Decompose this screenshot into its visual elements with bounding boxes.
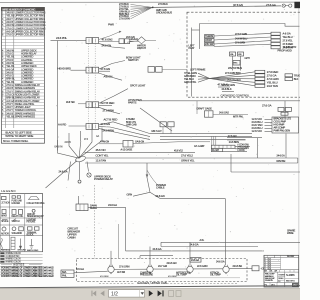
- svg-text:24.6 GA: 24.6 GA: [59, 170, 68, 174]
- svg-text:24.6 W: 24.6 W: [65, 142, 72, 144]
- svg-text:6-74: 6-74: [268, 264, 271, 266]
- svg-text:SOLENOID: SOLENOID: [12, 233, 23, 235]
- strip riser: [213, 136, 215, 145]
- toolbar first-page button (disabled): [91, 291, 96, 297]
- toolbar view button 2 (disabled): [176, 291, 181, 297]
- svg-text:24.6 W BLU: 24.6 W BLU: [235, 37, 247, 40]
- svg-text:OIL TEMP: OIL TEMP: [210, 274, 221, 277]
- wire: [131, 7, 153, 18]
- feed riser: [225, 199, 227, 266]
- revision row: [264, 259, 281, 261]
- enclosure inner stub: [192, 29, 200, 31]
- terminal strip CC2 pin: [255, 70, 265, 73]
- mid bus wire 2: [160, 136, 252, 138]
- inter-connector dotted harness line A: [88, 44, 90, 124]
- wire into junction: [79, 128, 102, 159]
- wire: [265, 124, 273, 126]
- wire list table row line: [1, 23, 44, 25]
- gauge output wire: [229, 268, 252, 270]
- wire list table row line: [1, 73, 44, 75]
- svg-text:27.6 BLK: 27.6 BLK: [158, 2, 168, 6]
- wire: [131, 7, 153, 11]
- aux cluster box a: [278, 107, 284, 111]
- company logo mark: [292, 283, 298, 286]
- wire: [162, 68, 187, 70]
- circuit breaker box: [76, 204, 88, 211]
- inter-connector dotted harness line B: [94, 44, 96, 124]
- panel top rail: [200, 24, 300, 27]
- svg-text:27.6 GRN: 27.6 GRN: [235, 42, 245, 45]
- connector J1: [86, 38, 92, 44]
- wire from water watch: [146, 39, 157, 41]
- svg-text:BLK: BLK: [294, 78, 299, 81]
- svg-text:WD-12867: WD-12867: [287, 256, 294, 258]
- relay coil upper deck: [87, 162, 89, 172]
- wire list table column line 2: [13, 11, 15, 128]
- revision row: [264, 257, 281, 259]
- lower bus 1: [161, 241, 300, 243]
- svg-text:24.6 PNL: 24.6 PNL: [56, 36, 67, 40]
- svg-text:PWR: PWR: [108, 23, 114, 27]
- wire: [235, 145, 250, 147]
- lamp riser: [162, 127, 164, 134]
- terminal strip CC2 pin: [255, 81, 265, 84]
- long wire y172: [231, 171, 300, 173]
- svg-text:24.6 TEL BLU: 24.6 TEL BLU: [227, 79, 241, 82]
- revision row: [264, 263, 281, 265]
- wire to bus: [150, 192, 161, 198]
- svg-text:FUSE LINK: FUSE LINK: [12, 201, 23, 203]
- svg-text:TRUGA: TRUGA: [294, 74, 300, 77]
- wire: [214, 44, 271, 46]
- wire: [198, 77, 210, 80]
- wire list table row line: [1, 45, 44, 47]
- svg-text:ALT 6M: ALT 6M: [117, 271, 125, 274]
- wire: [71, 69, 87, 71]
- legend row line: [0, 217, 43, 219]
- svg-text:A-6 GA: A-6 GA: [283, 32, 291, 36]
- svg-text:EARTH GND: EARTH GND: [27, 249, 39, 252]
- gauge G2: [147, 266, 153, 272]
- connector block CC1 pin: [271, 39, 280, 42]
- legend symbol: terminal block: [28, 227, 33, 230]
- lower bus 3: [126, 250, 265, 252]
- gauge G1: [108, 266, 114, 272]
- wire: [214, 33, 271, 36]
- relay cluster K2 box B: [238, 52, 244, 56]
- svg-text:L E G E N D: L E G E N D: [1, 189, 15, 193]
- wire list table frame: [1, 7, 44, 143]
- wire list table row line: [1, 32, 44, 34]
- terminal strip CC2 pin: [255, 74, 265, 77]
- svg-text:CONT YEL: CONT YEL: [96, 153, 109, 157]
- legend note line: [0, 265, 43, 267]
- svg-text:27.6 GA: 27.6 GA: [266, 3, 276, 7]
- page top border line: [0, 1, 300, 3]
- wire list table row line: [1, 117, 44, 119]
- thermostat block K1c: [205, 43, 215, 46]
- wire list table row line: [1, 92, 44, 94]
- svg-text:PUMP MTR: PUMP MTR: [283, 45, 296, 49]
- bus tie: [160, 242, 162, 246]
- wire: [214, 41, 271, 44]
- wire list table row line: [1, 38, 44, 40]
- connector block CC1 pin: [271, 36, 280, 39]
- wire list table row line: [1, 60, 44, 62]
- connector block CC1 pin: [271, 46, 280, 49]
- vertical feeder bus: [56, 41, 58, 151]
- svg-text:GT- LAMP: GT- LAMP: [194, 145, 205, 148]
- wire list table row line: [1, 35, 44, 37]
- svg-text:N O T E S: N O T E S: [14, 263, 25, 267]
- wire into junction: [69, 133, 79, 158]
- svg-text:GRN 8 YEL: GRN 8 YEL: [181, 159, 195, 163]
- connector J2: [86, 67, 92, 73]
- legend column line 2: [24, 194, 26, 252]
- wire to PWR arrow: [99, 32, 120, 40]
- wire to mid bus: [178, 141, 210, 143]
- oil gauge box: [123, 141, 133, 148]
- wire: [265, 121, 273, 123]
- wire: [265, 130, 273, 132]
- wire: [69, 125, 87, 127]
- svg-text:BRKR: BRKR: [1, 215, 7, 217]
- wire: [131, 7, 153, 16]
- svg-text:GRN W BL: GRN W BL: [184, 80, 197, 84]
- svg-text:GAUGES, UPPER CAB: GAUGES, UPPER CAB: [137, 281, 167, 285]
- title block frame: [264, 255, 299, 287]
- wire list table row line: [1, 111, 44, 113]
- scan speckle noise: [56, 4, 295, 275]
- wire into junction: [79, 129, 92, 158]
- connector J3: [86, 102, 92, 108]
- breaker drop riser: [125, 207, 127, 251]
- aux block B2a: [285, 74, 293, 77]
- svg-text:27.6 GN: 27.6 GN: [101, 67, 111, 71]
- wire list table row line: [1, 89, 44, 91]
- strip riser: [211, 136, 213, 145]
- svg-text:PNL: PNL: [62, 275, 67, 278]
- terminal box low: [190, 258, 201, 263]
- wire to water watch 2: [127, 41, 138, 42]
- svg-text:POWER RELAY: POWER RELAY: [94, 177, 113, 181]
- svg-text:GA B GN: GA B GN: [135, 140, 144, 143]
- wire fan to terminal strip: [210, 72, 256, 79]
- revision row: [264, 265, 281, 267]
- svg-text:47.6 GN2: 47.6 GN2: [102, 37, 114, 41]
- gauge link wire 2: [153, 268, 187, 270]
- label dashes: [99, 282, 134, 284]
- svg-text:HOLDER: HOLDER: [12, 203, 21, 205]
- svg-text:24.6 GN: 24.6 GN: [102, 43, 112, 47]
- wire: [131, 7, 153, 14]
- svg-text:ACT B RED: ACT B RED: [101, 101, 115, 105]
- aux block B2b: [285, 78, 293, 81]
- svg-text:DRAFT GAGE: DRAFT GAGE: [197, 107, 213, 110]
- svg-text:THERM: THERM: [205, 35, 213, 38]
- wire: [223, 150, 247, 152]
- lower bus 2: [161, 246, 258, 248]
- gauge link wire 3: [193, 268, 223, 270]
- breaker feed wire: [88, 206, 126, 208]
- ground bus wire: [153, 6, 281, 8]
- svg-text:27.6 Y GRN: 27.6 Y GRN: [235, 33, 247, 36]
- junction harness wrap: [75, 155, 86, 163]
- gauges dashed enclosure: [77, 259, 248, 282]
- svg-text:SWITCH: SWITCH: [12, 221, 20, 223]
- aux cluster box b: [285, 107, 291, 111]
- revision row: [264, 267, 281, 269]
- svg-text:6-71: 6-71: [268, 258, 271, 260]
- wire list table row line: [1, 16, 44, 18]
- legend symbol: chassis ground: [31, 239, 33, 246]
- wire list table row line: [1, 42, 44, 44]
- toolbar prev-page button (disabled): [100, 291, 104, 297]
- svg-text:24.6 BRN: 24.6 BRN: [103, 129, 114, 133]
- svg-text:27.6 GRN BRN: 27.6 GRN BRN: [225, 72, 241, 75]
- legend symbol: fuse pair: [12, 196, 15, 198]
- legend row line: [0, 206, 43, 208]
- wire list table row line: [1, 95, 44, 97]
- wire: [133, 192, 150, 196]
- relay cluster K2 box A: [230, 52, 236, 56]
- cluster wire: [232, 56, 234, 71]
- svg-text:27.6 GRN: 27.6 GRN: [119, 17, 130, 21]
- wire list table row line: [1, 29, 44, 31]
- svg-text:FMC: FMC: [293, 283, 299, 287]
- wire list footer row line: [1, 137, 44, 139]
- relay cluster K2 box C: [233, 61, 240, 66]
- svg-text:47.6 GRN: 47.6 GRN: [168, 276, 177, 278]
- svg-text:PRESSURE: PRESSURE: [140, 274, 153, 277]
- wire 24.6 BLK: [222, 91, 234, 93]
- svg-text:GROUND BUS: GROUND BUS: [156, 12, 172, 15]
- enclosure inner vertical: [191, 28, 193, 97]
- toolbar view button (disabled): [169, 291, 174, 297]
- svg-text:224.6 BA: 224.6 BA: [233, 265, 243, 268]
- wire list table row line: [1, 76, 44, 78]
- svg-text:45.6 VIO: 45.6 VIO: [96, 148, 107, 152]
- wire list table row line: [1, 108, 44, 110]
- svg-text:A-12 GAGE: A-12 GAGE: [121, 149, 133, 152]
- legend row line: [0, 235, 43, 237]
- terminal strip CC2 pin: [255, 84, 265, 87]
- wire list table row line: [1, 120, 44, 122]
- wire fan to terminal strip: [210, 78, 256, 85]
- wire: [265, 127, 273, 129]
- svg-text:24.6 GA: 24.6 GA: [190, 243, 199, 247]
- svg-text:24V TW BUS: 24V TW BUS: [228, 67, 242, 70]
- title block bottom band: [264, 282, 299, 284]
- wire list table row line: [1, 51, 44, 53]
- gauge riser 1: [110, 251, 112, 266]
- riser from mid bus: [285, 134, 287, 158]
- svg-text:24.6 GN: 24.6 GN: [156, 194, 165, 198]
- svg-text:27.6 YEL: 27.6 YEL: [283, 39, 294, 43]
- svg-text:CABIN: CABIN: [68, 236, 76, 240]
- wire list table row line: [1, 79, 44, 81]
- svg-text:(27.6 GA): (27.6 GA): [233, 4, 243, 7]
- svg-text:A 6L: A 6L: [200, 239, 205, 242]
- wire list table row line: [1, 54, 44, 56]
- load box B5: [272, 117, 299, 133]
- wire into junction: [57, 140, 79, 158]
- wire B 6 GA: [74, 271, 108, 273]
- mid bus wire 3: [160, 139, 246, 141]
- ground lug symbol B: [289, 4, 292, 7]
- legend note row: [0, 251, 43, 253]
- ground terminal block (dark): [294, 2, 300, 8]
- wire ACT B RED: [99, 104, 112, 106]
- wire list table row line: [1, 57, 44, 59]
- svg-text:63A: 63A: [62, 271, 67, 274]
- svg-text:LWR CAB: LWR CAB: [126, 123, 137, 126]
- legend notes header: [0, 262, 43, 264]
- svg-text:MOTOR: MOTOR: [1, 233, 9, 235]
- svg-text:BLOCK: BLOCK: [27, 235, 35, 237]
- wire: [198, 78, 210, 82]
- wire list table row line: [1, 70, 44, 72]
- riser to lower bus: [256, 138, 258, 158]
- sub panel box: [205, 111, 214, 117]
- svg-text:27.6 GN: 27.6 GN: [228, 135, 237, 138]
- legend symbol: motor: [2, 227, 6, 231]
- svg-text:6-72: 6-72: [268, 260, 271, 262]
- wire list table row line: [1, 82, 44, 84]
- harness dashed drop: [94, 185, 96, 259]
- svg-text:45.6 V12: 45.6 V12: [174, 149, 183, 152]
- revision row: [264, 261, 281, 263]
- wire list table row line: [1, 67, 44, 69]
- svg-text:A 6 RD: A 6 RD: [58, 122, 66, 126]
- svg-text:27.6 BRN: 27.6 BRN: [103, 108, 114, 112]
- wire 27.6 GN upper: [227, 137, 262, 139]
- wire: [78, 103, 86, 105]
- legend symbol: terminal strip ladder: [11, 237, 15, 249]
- svg-text:24.6 GA2: 24.6 GA2: [219, 111, 229, 114]
- legend row line: [0, 224, 43, 226]
- power cable curve: [147, 170, 160, 187]
- svg-text:WIRE: WIRE: [287, 231, 294, 235]
- svg-text:12.6 TAN: 12.6 TAN: [96, 159, 107, 163]
- svg-text:OIL TEMP: OIL TEMP: [176, 274, 187, 277]
- wire: [198, 76, 210, 78]
- legend symbol: ground arrow: [20, 239, 22, 248]
- svg-text:TOWER: TOWER: [278, 275, 285, 277]
- svg-text:BREAKER EQUIP: BREAKER EQUIP: [27, 215, 44, 218]
- wire 24.6 BRN upper: [227, 139, 246, 141]
- svg-text:24.6 TEC: 24.6 TEC: [66, 102, 75, 104]
- connector block CC1 pin: [271, 32, 280, 35]
- water watch sensor: [138, 37, 146, 44]
- svg-text:27.6 GN: 27.6 GN: [101, 122, 111, 126]
- stub tie: [139, 256, 141, 259]
- power cable drop: [146, 163, 148, 176]
- legend note row: [0, 259, 43, 261]
- title block mid column: [277, 272, 279, 283]
- wire list table row line: [1, 105, 44, 107]
- sub panel riser: [196, 101, 198, 114]
- toolbar page number field: [109, 290, 145, 297]
- terminal pair T1: [148, 67, 155, 73]
- svg-text:27.6 YEL2: 27.6 YEL2: [181, 154, 193, 158]
- mid bus wire 1: [150, 133, 252, 135]
- wire list table column line 1: [4, 11, 6, 128]
- wire 24.6 BRN to mid bus: [99, 128, 150, 139]
- wire 27.6 GN: [99, 70, 110, 72]
- sub panel wire: [213, 114, 248, 116]
- wire list table row line: [1, 98, 44, 100]
- legend symbol: breaker: [2, 210, 6, 214]
- svg-text:ACT B RED: ACT B RED: [104, 118, 118, 122]
- wire: [131, 4, 153, 7]
- title block top cell: [264, 257, 299, 259]
- wire to bow light switch: [99, 61, 125, 70]
- legend symbol: solenoid: [12, 227, 16, 231]
- wire: [235, 148, 247, 150]
- terminal strip CC2 pin: [255, 77, 265, 80]
- svg-text:24.6 GA: 24.6 GA: [191, 259, 200, 262]
- svg-text:YEL BLU: YEL BLU: [283, 35, 293, 39]
- wire 24.6 GA drop: [68, 162, 71, 181]
- page bottom border line: [0, 286, 300, 288]
- svg-text:47.6 GRN: 47.6 GRN: [100, 276, 109, 278]
- legend symbol: circuit breaker equip: [32, 209, 35, 212]
- svg-text:27.6 GA: 27.6 GA: [262, 104, 272, 108]
- wire: [198, 73, 210, 78]
- wire to spot light: [99, 89, 128, 104]
- junction J5: [147, 178, 150, 193]
- float switch strip: [211, 145, 235, 148]
- wire: [265, 118, 273, 120]
- wire 27.6 BRN: [99, 107, 120, 114]
- svg-text:LEFT FRAME: LEFT FRAME: [190, 67, 206, 71]
- wire 47.6 BLK: [218, 86, 230, 88]
- ground lug symbol A: [282, 4, 285, 7]
- wire 27.6 GN to mid bus: [99, 127, 150, 137]
- svg-text:BRKR: BRKR: [90, 206, 97, 210]
- svg-text:224.6 GN: 224.6 GN: [167, 262, 177, 265]
- svg-text:MTR PNL: MTR PNL: [233, 116, 244, 119]
- gauge riser 3: [189, 242, 191, 265]
- svg-text:GA B RN: GA B RN: [54, 146, 63, 149]
- thermostat block K1b: [205, 39, 215, 42]
- wire stub: [130, 40, 139, 42]
- wire list table row line: [1, 86, 44, 88]
- wire fan to terminal strip: [210, 75, 256, 78]
- wire list table row line: [1, 64, 44, 66]
- legend note row: [0, 254, 43, 256]
- gauge bottom wire: [80, 277, 240, 279]
- gauge G3: [187, 266, 193, 272]
- wire 4 PM GN: [99, 143, 123, 145]
- svg-text:GRN: GRN: [127, 192, 133, 196]
- legend note row: [0, 257, 43, 259]
- stub bus: [140, 255, 173, 257]
- wire fan to terminal strip: [210, 77, 256, 79]
- svg-text:24.6 GA: 24.6 GA: [108, 203, 117, 207]
- svg-text:GROUND: GROUND: [18, 250, 27, 252]
- svg-text:27.6 GRN: 27.6 GRN: [119, 265, 130, 268]
- wire 12.6 TAN long bus: [85, 162, 298, 164]
- lamp riser: [170, 127, 172, 134]
- svg-text:WATCH: WATCH: [137, 46, 146, 50]
- gauge riser 2: [149, 247, 151, 266]
- legend note line: [0, 274, 43, 276]
- svg-text:FIXTURE: FIXTURE: [27, 222, 36, 224]
- svg-text:PARTS: PARTS: [128, 101, 137, 105]
- svg-text:24.6 GA: 24.6 GA: [216, 261, 225, 264]
